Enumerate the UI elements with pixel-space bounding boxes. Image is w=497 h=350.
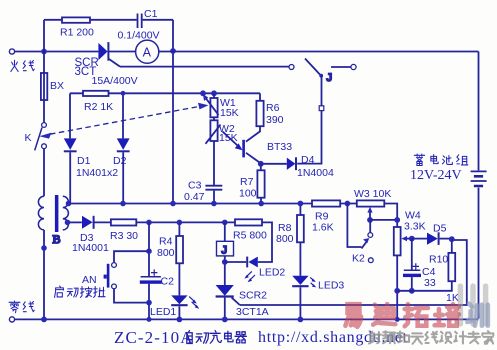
svg-text:R7: R7 xyxy=(240,176,254,188)
label R7 100 xyxy=(239,176,257,200)
svg-text:R4: R4 xyxy=(159,236,173,248)
wire: K2 top contact to wiper node xyxy=(369,220,371,233)
resistor R6 xyxy=(256,101,263,126)
svg-text:K2: K2 xyxy=(352,253,365,265)
wire: J blade down to square contact xyxy=(321,76,323,106)
diode D1 xyxy=(64,93,77,203)
relay coil J box xyxy=(217,222,234,285)
rheostat W2 xyxy=(206,117,221,144)
svg-text:100: 100 xyxy=(239,188,257,200)
LED3 xyxy=(292,276,316,320)
thyristor SCR2 3CT1A xyxy=(216,285,240,319)
terminal: live wire input (火线) xyxy=(9,49,14,54)
LED1 xyxy=(171,295,199,319)
svg-text:R1 200: R1 200 xyxy=(60,27,94,39)
battery pack 12V-24V xyxy=(471,52,487,319)
resistor R3 xyxy=(111,219,136,225)
node: D5/R10 top junction xyxy=(449,236,455,242)
svg-text:A: A xyxy=(143,45,152,59)
label 1K xyxy=(446,292,459,304)
label W2 15K xyxy=(219,123,238,144)
label BX xyxy=(50,80,64,92)
node: J coil bottom / LED2 cathode / SCR2 anode xyxy=(222,259,228,265)
svg-text:1.6K: 1.6K xyxy=(312,222,334,234)
node: W1 wiper tie on R2 row xyxy=(200,90,206,96)
svg-text:J: J xyxy=(222,245,228,257)
label LED3 xyxy=(318,280,344,292)
node: relay coil J top xyxy=(222,220,228,226)
wire: square contact down to D4 cathode node xyxy=(297,111,321,164)
wire: stub of J right contact xyxy=(331,66,351,68)
watermark gray 射频和天线设计专家 xyxy=(369,331,493,344)
svg-text:C2: C2 xyxy=(161,276,175,288)
node: blob on primary bottom wire xyxy=(41,245,47,251)
wire: SCR to ammeter xyxy=(108,51,135,53)
wire: node A1 up to top rail corner xyxy=(43,20,45,52)
label K xyxy=(25,132,32,144)
svg-text:J: J xyxy=(327,72,333,84)
node: wiper wire at W4 column xyxy=(394,217,400,223)
label 0.1/400V xyxy=(118,30,160,42)
diode D5 xyxy=(412,232,452,245)
svg-text:W3 10K: W3 10K xyxy=(354,188,391,200)
svg-text:1N4004: 1N4004 xyxy=(297,167,334,179)
label LED2 xyxy=(259,267,285,279)
wire: R5 right down to LED2 anode xyxy=(258,222,272,262)
label R1 200 xyxy=(60,27,94,39)
svg-text:C3: C3 xyxy=(188,180,202,192)
node: C2/AN column top xyxy=(146,220,152,226)
wire: C1 to top-right corner xyxy=(143,19,173,21)
label D5 xyxy=(433,223,447,235)
wire: SCR gate run to relay contact J xyxy=(120,66,289,68)
resistor R5 xyxy=(235,219,262,225)
label 火线 (live wire) xyxy=(11,60,34,71)
W4 wiper arrow xyxy=(401,236,411,241)
svg-text:D1: D1 xyxy=(77,155,91,167)
W3 wiper arrow xyxy=(367,207,372,220)
svg-text:R3 30: R3 30 xyxy=(110,230,138,242)
switch blade of relay contact J xyxy=(305,59,323,78)
svg-text:390: 390 xyxy=(266,114,284,126)
wire: secondary bottom tap to D3 xyxy=(67,221,82,223)
label B (transformer) xyxy=(53,232,61,246)
node: W4 bottom rail xyxy=(394,288,400,294)
contact circle: J left fixed contact xyxy=(289,65,294,70)
switch K2 branch from R9 node xyxy=(347,204,369,249)
wire: wiper to W4 column xyxy=(370,219,397,221)
wire: mid rail y=203.5 (secondary top tap to R9) xyxy=(67,203,312,205)
wire: SCR2 gate run to D5/R10 node xyxy=(240,240,467,305)
label D3 1N4001 xyxy=(72,232,109,254)
capacitor C2 electrolytic xyxy=(140,269,162,283)
node: C4 bottom rail xyxy=(409,288,415,294)
svg-text:1N4001: 1N4001 xyxy=(72,242,109,254)
node: bus bottom on mid rail xyxy=(170,201,176,207)
label C3 0.47 xyxy=(184,180,205,204)
node: AN top tie xyxy=(146,248,152,254)
contact circle: K2 bottom (open stub) xyxy=(368,258,373,263)
label SCR 3CT 15A/400V xyxy=(75,57,138,87)
label D4 1N4004 xyxy=(297,154,334,179)
svg-text:0.1/400V: 0.1/400V xyxy=(118,30,160,42)
wire: AN branch bottom xyxy=(114,289,149,303)
svg-text:R10: R10 xyxy=(429,254,448,266)
transformer B secondary winding xyxy=(63,196,69,230)
push button AN xyxy=(104,263,117,289)
label C1 xyxy=(144,8,158,20)
node: W1 top lead on R2 row xyxy=(211,90,217,96)
svg-text:800: 800 xyxy=(157,247,175,259)
svg-text:BX: BX xyxy=(50,80,64,92)
wire: W2 bottom to C3 xyxy=(213,141,215,185)
label R3 30 xyxy=(110,230,138,242)
svg-text:0.47: 0.47 xyxy=(184,191,205,203)
label 蓄电池组 (battery pack) xyxy=(414,154,468,165)
svg-text:12V-24V: 12V-24V xyxy=(410,168,462,183)
svg-text:LED3: LED3 xyxy=(318,280,344,292)
label W4 3.3K xyxy=(404,210,426,233)
wire: top rail left segment to R1 xyxy=(44,19,62,21)
label 零线 (neutral wire) xyxy=(9,301,34,313)
label R2 1K xyxy=(84,101,113,113)
wire: vertical bus x=173 (C1 down to mid rail) xyxy=(172,20,174,204)
svg-text:1N401x2: 1N401x2 xyxy=(76,167,118,179)
node A1 junction (x=44, main line) xyxy=(41,49,47,55)
fuse BX xyxy=(41,52,47,123)
label R4 800 xyxy=(157,236,175,260)
LED2 xyxy=(225,257,258,283)
svg-text:R2 1K: R2 1K xyxy=(84,101,113,113)
transformer B primary winding xyxy=(38,196,44,230)
label LED1 xyxy=(150,306,176,318)
node: R9/K2 junction xyxy=(345,201,351,207)
wire: R6 top lead xyxy=(259,93,261,101)
svg-text:D5: D5 xyxy=(433,223,447,235)
resistor R10 xyxy=(448,239,455,281)
svg-text:33: 33 xyxy=(424,277,436,289)
transistor BT33 (UJT) xyxy=(223,126,261,163)
caption: ZC-2-10A 自动充电器 xyxy=(114,328,194,347)
resistor R9 xyxy=(312,200,340,206)
resistor R2 xyxy=(83,91,109,96)
node: R8/R9/LED3 on mid rail xyxy=(298,201,304,207)
svg-text:800: 800 xyxy=(276,233,294,245)
label BT33 xyxy=(267,141,292,153)
node: bus/main-line junction xyxy=(170,48,176,54)
switch K blade xyxy=(35,128,42,151)
svg-text:15K: 15K xyxy=(219,132,238,144)
diode D2 xyxy=(117,91,130,206)
terminal: neutral input (零线) xyxy=(9,317,14,322)
svg-text:R6: R6 xyxy=(266,102,280,114)
svg-text:R5 800: R5 800 xyxy=(233,230,267,242)
node: W4 wiper / D5 / C4 junction xyxy=(409,236,415,242)
label R8 800 xyxy=(276,222,294,245)
ammeter A xyxy=(136,40,159,63)
label R9 1.6K xyxy=(312,211,334,234)
wire: neutral bottom rail xyxy=(15,318,479,320)
node: AN bottom tie xyxy=(146,300,152,306)
diode D3 xyxy=(82,216,111,229)
resistor R4 xyxy=(176,222,183,295)
node: secondary top tap xyxy=(66,201,72,207)
wire: C2/AN column xyxy=(148,222,150,319)
capacitor C4 electrolytic xyxy=(403,239,421,291)
resistor R8 xyxy=(297,204,304,276)
label W3 10K xyxy=(354,188,391,200)
svg-text:K: K xyxy=(25,132,32,144)
wire: live input to node A1 xyxy=(15,51,99,53)
svg-text:AN: AN xyxy=(82,274,97,286)
watermark big gray bars (corner) xyxy=(460,286,485,324)
resistor R1 xyxy=(62,17,90,22)
label AN xyxy=(82,274,97,286)
svg-text:D4: D4 xyxy=(301,154,315,166)
rheostat W4 xyxy=(394,227,401,319)
svg-text:BT33: BT33 xyxy=(267,141,292,153)
wire: local bottom rail W4/C4/R10 xyxy=(397,281,452,291)
capacitor C1 xyxy=(138,14,142,29)
label K2 xyxy=(352,253,365,265)
svg-text:D2: D2 xyxy=(113,155,127,167)
thyristor SCR 3CT (anode-cathode on main line) xyxy=(98,42,108,61)
label 12V-24V (battery) xyxy=(410,168,462,183)
switch K contact circles xyxy=(42,123,47,149)
label C2 xyxy=(161,276,175,288)
label R10 xyxy=(429,254,448,266)
wire: K to transformer primary xyxy=(43,149,45,197)
svg-text:3CT1A: 3CT1A xyxy=(236,306,269,318)
wire: primary bottom to neutral rail xyxy=(43,230,45,320)
transformer B core xyxy=(55,195,59,232)
wire: R3 to R5 row (y=222.4) xyxy=(136,221,235,223)
potentiometer W3 xyxy=(357,200,397,227)
wire: R2 row (D1 top to R6 top) xyxy=(70,92,260,94)
caption: URL xyxy=(258,329,408,346)
label J (relay contact) xyxy=(327,72,333,84)
contact circle: K2 top xyxy=(368,233,373,238)
node: R4 top xyxy=(177,220,183,226)
svg-text:ZC-2-10A: ZC-2-10A xyxy=(114,328,194,347)
svg-text:15A/400V: 15A/400V xyxy=(92,75,138,87)
label C4 33 xyxy=(422,266,436,289)
square contact on J branch xyxy=(319,106,324,111)
label R6 390 xyxy=(266,102,284,126)
wire: SCR gate lead diagonal xyxy=(109,59,120,67)
label SCR2 3CT1A xyxy=(236,290,269,319)
svg-text:3.3K: 3.3K xyxy=(404,221,426,233)
resistor R7 xyxy=(257,164,264,207)
rheostat W1 xyxy=(203,93,219,117)
contact circle: J right fixed contact xyxy=(351,64,356,69)
svg-text:LED1: LED1 xyxy=(150,306,176,318)
label D1 D2 1N401x2 xyxy=(76,155,127,179)
node: W3 wiper junction xyxy=(367,217,373,223)
dashed mechanical link K to W1 xyxy=(39,103,208,139)
node: secondary bottom tap xyxy=(65,220,71,226)
wire: R9 to W3 xyxy=(340,203,357,205)
label R5 800 xyxy=(233,230,267,242)
node: rail ties xyxy=(41,317,400,323)
watermark red 易迪拓培训 xyxy=(345,304,459,327)
svg-text:SCR2: SCR2 xyxy=(239,290,267,302)
wire: ammeter to battery positive (main top line) xyxy=(159,51,479,53)
svg-text:C1: C1 xyxy=(144,8,158,20)
svg-text:LED2: LED2 xyxy=(259,267,285,279)
capacitor C3 xyxy=(205,186,222,207)
wire: R1 to C1 xyxy=(90,19,137,21)
node: BT33 B1 / R7 / D4 junction xyxy=(258,161,264,167)
diode D4 xyxy=(261,157,296,170)
label W1 15K xyxy=(220,97,239,119)
wire: AN branch top xyxy=(114,251,149,262)
label 启动按扭 (start button) xyxy=(55,286,106,297)
svg-text:15K: 15K xyxy=(220,107,239,119)
svg-text:B: B xyxy=(53,232,61,246)
